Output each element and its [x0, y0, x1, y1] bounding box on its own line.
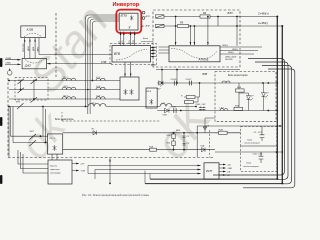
- capacitor CH.27: [189, 81, 191, 86]
- bus bar vertical (+): [276, 17, 278, 179]
- svg-text:Л4.1: Л4.1: [90, 102, 96, 105]
- svg-text:АТ: АТ: [141, 25, 145, 28]
- watermark: [10, 0, 222, 168]
- svg-text:СН.25: СН.25: [171, 79, 178, 81]
- svg-text:VS7: VS7: [157, 88, 162, 90]
- node OShM input arrows: [5, 60, 21, 65]
- resistor ladder R18/R19: [238, 83, 240, 111]
- thyristor VT2: [262, 90, 266, 99]
- rectifier PCh-V box: [48, 134, 63, 154]
- svg-text:ВТВ: ВТВ: [114, 52, 121, 56]
- thyristor VS8: [165, 108, 170, 112]
- wire PCh lower row: [63, 149, 215, 151]
- svg-text:ОВ1(-): ОВ1(-): [228, 52, 234, 54]
- panel feed wires into rectifier PCh: [11, 136, 48, 142]
- wire drops to thyristor row: [162, 70, 177, 84]
- breaker on reactor row: [17, 103, 24, 109]
- AT43 left input stubs: [159, 47, 170, 53]
- svg-text:Л1.3: Л1.3: [62, 96, 68, 98]
- inductor L1.1: [62, 78, 76, 80]
- wire elbow to VTV: [39, 38, 112, 55]
- I13T outputs: [219, 165, 225, 176]
- inductor L4.2a: [160, 104, 172, 107]
- svg-text:у: у: [128, 25, 131, 29]
- svg-text:ВЗ.В: ВЗ.В: [147, 91, 152, 93]
- panel outputs: [72, 164, 79, 171]
- svg-text:И7: И7: [92, 129, 95, 131]
- arrows into VTV right edge: [151, 48, 156, 57]
- label block rezistorov (near inverter): [140, 38, 154, 43]
- svg-text:Блок: Блок: [248, 140, 254, 142]
- svg-text:ОВ1(+): ОВ1(+): [222, 45, 229, 47]
- dashed box around VTV: [110, 44, 157, 65]
- svg-text:~11В: ~11В: [80, 171, 86, 173]
- diode K1V: [202, 148, 206, 152]
- inductor L1.3: [62, 87, 76, 89]
- svg-text:ВЗЗ: ВЗЗ: [228, 11, 233, 15]
- svg-text:ВУЗ: ВУЗ: [151, 64, 156, 67]
- svg-text:Ξ+480(+): Ξ+480(+): [257, 12, 269, 16]
- capacitors CH8 CH7 (vertical pair): [199, 107, 202, 111]
- connector tab AL2: [156, 24, 165, 27]
- relay DZh2 box: [22, 58, 46, 68]
- svg-text:СН.27: СН.27: [186, 79, 193, 81]
- top dashed enclosure D1: [153, 10, 240, 45]
- resistor R1D: [150, 148, 157, 151]
- wire row y126 to bus: [197, 125, 282, 127]
- wire L1 row2: [9, 89, 120, 91]
- dashed resistor block D2: [215, 72, 276, 122]
- svg-text:ФУ1: ФУ1: [16, 101, 21, 104]
- svg-text:АТ43-В: АТ43-В: [198, 58, 209, 62]
- rectifier bridge box 2: [146, 88, 157, 108]
- svg-text:АЛ1: АЛ1: [145, 15, 151, 18]
- svg-text:Л1.1: Л1.1: [62, 77, 68, 79]
- wires into panel: [18, 150, 48, 173]
- inductor L4.1: [88, 104, 106, 107]
- svg-text:БТЗВ: БТЗВ: [121, 14, 127, 17]
- svg-text:С1В...С2В: С1В...С2В: [253, 154, 263, 156]
- svg-text:oK: oK: [145, 90, 222, 168]
- bus bar vertical (-): [281, 26, 283, 183]
- svg-text:R2В: R2В: [219, 129, 224, 131]
- svg-text:~1ВВ: ~1ВВ: [227, 168, 233, 170]
- svg-text:VT: VT: [251, 96, 254, 98]
- wire L1 row1: [9, 80, 120, 82]
- svg-text:СН8...СН7: СН8...СН7: [196, 104, 207, 106]
- svg-text:конденсаторов: конденсаторов: [245, 142, 261, 145]
- svg-text:Рис. 10. Эскиз принципиальной: Рис. 10. Эскиз принципиальной электричес…: [82, 193, 149, 197]
- inductor on row y83: [222, 81, 230, 83]
- svg-text:R5: R5: [180, 21, 184, 24]
- svg-text:ОВ 2200: ОВ 2200: [225, 59, 233, 61]
- inductor L1.5: [62, 97, 76, 99]
- AT43 right output wires: [220, 47, 262, 54]
- svg-text:С1...С1З: С1...С1З: [254, 132, 263, 134]
- dashed breaker box D7: [15, 78, 48, 101]
- svg-text:К1В: К1В: [201, 146, 205, 148]
- big dashed enclosure bottom: [8, 78, 215, 158]
- svg-text:R1Д: R1Д: [149, 146, 154, 148]
- RC ladder R1V R12 C2 C3: [174, 133, 185, 150]
- dashed reactor block D5: [62, 112, 160, 121]
- up arrow from return wire: [109, 159, 111, 184]
- capacitor CH.1V: [174, 108, 176, 113]
- svg-text:VT: VT: [266, 93, 269, 95]
- feedback resistor loop (R5a/R5b): [184, 83, 200, 102]
- svg-text:Л1.2: Л1.2: [62, 86, 68, 88]
- svg-text:+ПУ: +ПУ: [80, 164, 85, 166]
- svg-text:ВУВ: ВУВ: [176, 130, 181, 132]
- converter VTV box: [112, 46, 151, 63]
- wire PCh to right (diode I7 row): [63, 132, 241, 134]
- labels rotated on wires: [23, 42, 40, 52]
- wires dropping into AT43 with down arrows: [176, 17, 208, 46]
- node dots on buses: [175, 16, 284, 28]
- resistor R6: [200, 15, 210, 18]
- svg-text:Блок: Блок: [143, 38, 149, 40]
- wire +480(+) bus top: [164, 16, 277, 18]
- svg-text:А13В: А13В: [26, 27, 34, 31]
- label +480(+): [257, 12, 269, 26]
- svg-text:ДУМ: ДУМ: [28, 46, 30, 51]
- inductor L1.2: [96, 78, 105, 80]
- long return wire 1: [150, 178, 277, 180]
- svg-text:АЛ2: АЛ2: [145, 25, 151, 28]
- inverter U1 box: [119, 13, 138, 30]
- breaker blades: [18, 79, 38, 103]
- svg-text:+1В: +1В: [227, 164, 231, 166]
- svg-text:-СВ: -СВ: [227, 171, 231, 173]
- svg-text:R6: R6: [203, 12, 207, 15]
- resistor R5: [178, 24, 189, 27]
- svg-text:ПУ...У: ПУ...У: [50, 138, 56, 140]
- inductor L4.2: [220, 109, 228, 111]
- inductor L1.6: [96, 97, 105, 99]
- svg-text:тиристорн.: тиристорн.: [50, 169, 60, 171]
- resistor R2V: [215, 132, 241, 134]
- svg-text:ДУВ: ДУВ: [33, 46, 35, 51]
- svg-text:электродов: электродов: [50, 173, 61, 175]
- dashed border vertical (enclosure): [55, 13, 57, 77]
- svg-text:L1.4: L1.4: [96, 95, 101, 98]
- svg-text:ВЗВ: ВЗВ: [203, 73, 208, 76]
- wire bundle to inverter (4 L-shaped wires): [86, 15, 120, 107]
- panel box (thyristor control): [48, 160, 72, 184]
- page frame (book edge, nested lines right/bottom): [213, 59, 285, 176]
- vertical x197: [196, 126, 198, 157]
- svg-text:И1ЗТ: И1ЗТ: [206, 169, 213, 173]
- diode K3 vertical: [203, 125, 207, 133]
- svg-text:ОШМ: ОШМ: [6, 58, 12, 60]
- wires panel to I13T: [88, 166, 201, 174]
- wires VTV down to bridge (2 down arrows): [125, 62, 131, 77]
- svg-text:ПУЗ-ПУ2: ПУЗ-ПУ2: [23, 42, 25, 52]
- capacitor CH.25: [174, 81, 176, 86]
- svg-text:ВУ: ВУ: [153, 53, 156, 55]
- wire drop x237: [218, 17, 237, 46]
- converter I13T box: [204, 163, 219, 179]
- breaker FU2 blades: [30, 134, 37, 146]
- svg-text:Ξ+480(-): Ξ+480(-): [257, 21, 268, 25]
- capacitor block D6b: [241, 146, 277, 172]
- diode I7: [93, 131, 97, 135]
- svg-text:ЛУВ2: ЛУВ2: [37, 46, 39, 52]
- svg-text:Блок реакторов: Блок реакторов: [55, 118, 74, 121]
- ground / measuring coil circle: [9, 69, 11, 71]
- svg-text:конденсаторов: конденсаторов: [244, 165, 260, 168]
- svg-text:ДЖ2: ДЖ2: [24, 64, 31, 68]
- capacitor block D6a: [241, 127, 277, 147]
- svg-text:Панель: Панель: [50, 166, 57, 168]
- thyristor VS7 row (y83): [157, 82, 277, 84]
- wires VTV to inverter (4 up arrows): [121, 32, 135, 46]
- svg-text:R1В: R1В: [167, 135, 172, 137]
- relay A13B box: [21, 26, 46, 38]
- svg-text:Блок: Блок: [247, 163, 253, 165]
- svg-text:СН.1В: СН.1В: [170, 106, 177, 108]
- wire -480 bus: [164, 25, 282, 27]
- wire L1 row3: [9, 98, 120, 100]
- svg-text:Блок резисторов: Блок резисторов: [228, 74, 248, 77]
- svg-text:ОВП(+) 2200: ОВП(+) 2200: [225, 56, 237, 58]
- svg-text:АВВ: АВВ: [151, 46, 157, 49]
- wire DZh2 to VTV (arrow into DZh2): [47, 63, 112, 65]
- wire A13B to DZh2 (4 verticals with up arrows): [25, 38, 35, 59]
- svg-text:резисторов: резисторов: [140, 41, 154, 43]
- thyristor VS7: [159, 81, 164, 85]
- left edge scan marks: [0, 58, 2, 184]
- inverter highlight box (red): [116, 10, 141, 33]
- thyristor VS8 row (y110.5): [157, 110, 277, 112]
- inductor L1.4: [96, 87, 105, 89]
- svg-text:ОВ2(+): ОВ2(+): [232, 49, 239, 51]
- wire horizontal below D1: [156, 69, 240, 71]
- transformer AT43-V box: [169, 46, 220, 62]
- svg-text:СПВ: СПВ: [101, 61, 107, 64]
- rectifier bridge box 1: [120, 77, 139, 100]
- inverter output terminals: [142, 11, 145, 14]
- svg-text:Инвертор: Инвертор: [113, 2, 140, 8]
- wire verticals from row y106 to panel below: [9, 107, 13, 158]
- thyristor VT1: [247, 93, 251, 102]
- wire row y152 to bus: [215, 151, 282, 153]
- connector tab AL1: [156, 15, 165, 18]
- wire reactor row: [9, 106, 196, 108]
- long return wire 2: [145, 182, 282, 184]
